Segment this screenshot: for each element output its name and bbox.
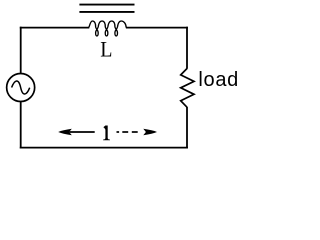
wire bottom segment (20, 147, 188, 149)
inductor L (89, 21, 127, 36)
AC source V1 (7, 74, 35, 102)
svg-text:load: load (198, 69, 239, 91)
wire top right segment (126, 27, 188, 29)
wire top left segment (20, 27, 90, 29)
length arrow left shaft (70, 131, 95, 133)
svg-text:L: L (100, 36, 112, 61)
wire left lower segment (20, 102, 22, 149)
length arrow left head (58, 129, 72, 135)
sine wave inside AC source (12, 81, 30, 94)
wire right upper segment (186, 27, 188, 69)
length arrow right head (143, 129, 157, 135)
length arrow right dashed shaft (117, 131, 120, 133)
iron core line lower (79, 11, 134, 13)
wire left upper segment (20, 27, 22, 74)
wire right lower segment (186, 107, 188, 149)
label l (length) (103, 126, 110, 141)
iron core line upper (79, 4, 134, 6)
resistor load (181, 69, 194, 108)
